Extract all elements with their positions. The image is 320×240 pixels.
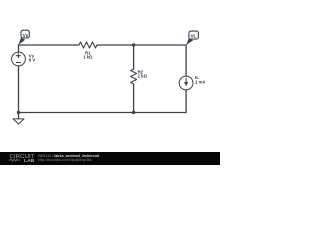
- node VL flag pointer: [186, 38, 193, 45]
- wire middle branch upper: [133, 45, 135, 69]
- wire top rail left segment: [19, 44, 80, 46]
- junction node bottom middle: [132, 111, 135, 114]
- resistor R2: [131, 69, 137, 84]
- junction node top (R2 top): [132, 43, 135, 46]
- svg-text:2 kΩ: 2 kΩ: [138, 74, 148, 79]
- svg-text:LAB: LAB: [24, 158, 35, 163]
- wire bottom rail: [19, 112, 187, 114]
- svg-text:1 kΩ: 1 kΩ: [83, 55, 93, 60]
- wire right branch lower: [185, 90, 187, 113]
- node Vs label box: [21, 30, 29, 38]
- vs minus symbol: [16, 61, 21, 63]
- junction node bottom left: [17, 111, 20, 114]
- footer logo CIRCUIT: [9, 154, 36, 163]
- wire left branch upper: [18, 45, 20, 52]
- resistor R1: [79, 42, 97, 48]
- wire left branch lower: [18, 66, 20, 113]
- vs plus symbol: [16, 53, 21, 62]
- voltage source Vs: [12, 52, 26, 66]
- svg-text:Vs: Vs: [23, 33, 29, 38]
- wire right branch upper: [185, 45, 187, 76]
- label Vs value: [29, 50, 206, 84]
- node Vs flag pointer: [18, 38, 25, 45]
- node VL label box: [189, 31, 199, 39]
- svg-text:http://circuitlab.com/c/lpda3r: http://circuitlab.com/c/lpda3rwy36k: [38, 158, 92, 162]
- wire top rail right segment: [97, 44, 186, 46]
- svg-text:VL: VL: [190, 34, 196, 39]
- svg-text:6 V: 6 V: [29, 58, 36, 63]
- ground: [13, 119, 24, 124]
- footer logo resistor zigzag: [9, 159, 20, 161]
- current source IL: [179, 76, 193, 90]
- current source arrow: [185, 78, 188, 86]
- svg-text:1 mA: 1 mA: [195, 79, 206, 84]
- ground stub wire: [18, 113, 20, 119]
- wire middle branch lower: [133, 84, 135, 113]
- footer bar: [0, 152, 220, 165]
